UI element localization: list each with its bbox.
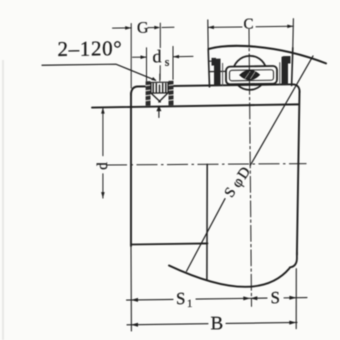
inner ring band + body outline bbox=[92, 45, 326, 332]
S1 / S dimension line bbox=[127, 298, 308, 301]
set screw countersink V bbox=[151, 93, 168, 102]
partial bottom edge of inner ring bbox=[131, 243, 208, 244]
left seal bbox=[212, 58, 221, 86]
right extension line to B bbox=[295, 269, 297, 329]
ball bbox=[233, 56, 267, 90]
d dimension bbox=[102, 109, 104, 199]
C dimension bbox=[208, 26, 293, 27]
outer ring section faces bbox=[208, 19, 294, 87]
S arrow right bbox=[289, 296, 296, 300]
S arrow left bbox=[250, 296, 257, 300]
set screw boss right wall bbox=[169, 81, 174, 106]
screw socket slots bbox=[153, 83, 166, 92]
svg-text:S: S bbox=[176, 289, 185, 308]
C arrow right bbox=[287, 24, 293, 28]
svg-text:G: G bbox=[137, 20, 149, 37]
left extension line to B bbox=[130, 246, 132, 331]
boss thread texture bbox=[146, 85, 173, 101]
svg-text:C: C bbox=[244, 16, 254, 32]
svg-text:s: s bbox=[165, 55, 170, 69]
C arrow left bbox=[208, 26, 214, 30]
drill point arrow below bore line bbox=[156, 105, 161, 111]
spherical OD arc (bottom) bbox=[169, 264, 290, 288]
2-120 leader bbox=[42, 64, 156, 82]
leader arrowhead bbox=[151, 77, 156, 81]
svg-text:d: d bbox=[153, 46, 162, 66]
right seal bbox=[282, 56, 291, 85]
B arrow right bbox=[289, 320, 296, 324]
svg-text:S: S bbox=[271, 288, 280, 307]
right face edge bbox=[297, 92, 300, 255]
G arrow right bbox=[154, 26, 160, 30]
left seal groove edge bbox=[222, 63, 224, 85]
svg-text:2–120°: 2–120° bbox=[58, 36, 123, 61]
band top with rounded corners bbox=[131, 84, 300, 95]
d arrow top bbox=[101, 108, 105, 114]
G arrow left bbox=[125, 26, 131, 30]
G dimension bbox=[113, 23, 175, 88]
outer ring left face / C extension bbox=[207, 20, 209, 49]
right seal groove edge bbox=[279, 63, 281, 85]
B dimension line bbox=[127, 322, 297, 324]
bottom-right corner to arc bbox=[290, 253, 297, 268]
SphiD diameter line bbox=[187, 56, 314, 271]
d arrow bottom bbox=[101, 192, 105, 198]
ball section lens bbox=[240, 70, 259, 79]
d_s dimension bbox=[133, 46, 194, 81]
cage outer bbox=[226, 66, 277, 84]
svg-text:1: 1 bbox=[187, 298, 192, 310]
screw centerline stub bbox=[159, 74, 161, 81]
horizontal centerline (flatter than skew) bbox=[106, 164, 307, 165]
cage inner bbox=[230, 70, 274, 81]
spherical OD arc (top) bbox=[209, 45, 327, 65]
bore line (band bottom), extended left for d dimension bbox=[92, 104, 298, 107]
d_s arrow right bbox=[173, 55, 179, 59]
S1 arrow left bbox=[131, 298, 138, 302]
vertical centerline bbox=[249, 29, 252, 306]
outer ring face line in lower view bbox=[206, 164, 208, 279]
left face edge bbox=[130, 93, 132, 246]
lens hatch highlights bbox=[245, 71, 255, 78]
S1 arrow right bbox=[243, 296, 250, 300]
set screw boss left wall bbox=[146, 81, 151, 106]
outer ring right face / C extension bbox=[292, 19, 295, 48]
seal groove line left bbox=[209, 70, 225, 72]
svg-text:d: d bbox=[95, 162, 111, 170]
B arrow left bbox=[131, 323, 138, 327]
faint scanner edge line bbox=[2, 60, 4, 340]
seal lip ledge line bbox=[210, 60, 216, 62]
set screw head bbox=[151, 82, 168, 93]
svg-text:B: B bbox=[211, 313, 224, 334]
d_s arrow left bbox=[141, 55, 147, 59]
